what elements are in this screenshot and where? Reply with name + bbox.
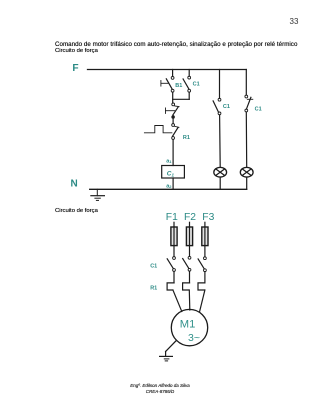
fuse F1 — [171, 222, 177, 256]
footer signature — [0, 383, 320, 395]
svg-text:3~: 3~ — [188, 332, 200, 344]
ground (N rail) — [91, 189, 105, 200]
seal contact C1 — [183, 70, 191, 93]
pushbutton B1 — [161, 70, 174, 93]
wire coil to N — [172, 178, 174, 189]
label M1 — [180, 318, 196, 330]
title line 2 — [55, 48, 98, 54]
label C1 (seal) — [193, 81, 200, 87]
wire F rail — [88, 69, 247, 71]
wire lamp H1 to N — [219, 177, 221, 189]
svg-text:C1: C1 — [167, 171, 175, 178]
label C1 lamp2 — [255, 107, 262, 113]
label 3~ — [188, 332, 200, 344]
contact C1 phase2 — [183, 256, 191, 271]
wire to lamp H2 — [245, 112, 247, 167]
svg-text:B1: B1 — [175, 83, 182, 89]
labels F1 F2 F3 — [166, 212, 215, 223]
svg-text:C1: C1 — [255, 107, 262, 113]
svg-text:R1: R1 — [150, 285, 157, 291]
label C1 coil — [167, 171, 175, 178]
svg-text:F2: F2 — [184, 212, 196, 223]
svg-text:M1: M1 — [180, 318, 196, 330]
fuse F3 — [202, 222, 208, 256]
title line 1 — [55, 41, 297, 48]
label C1 (forca) — [150, 264, 157, 270]
motor M1 — [171, 309, 207, 345]
ground (motor) — [160, 340, 177, 361]
label R1 (forca) — [150, 285, 157, 291]
svg-text:C1: C1 — [150, 264, 157, 270]
node N label — [71, 179, 78, 190]
NC pushbutton S0 — [166, 103, 180, 115]
thermal element R1 phase1 — [167, 271, 182, 311]
lamp H2 — [240, 167, 253, 177]
label R1 — [183, 135, 190, 141]
thermal element R1 phase2 — [183, 271, 190, 310]
label C1 lamp1 — [223, 104, 230, 110]
coil C1 — [162, 166, 185, 179]
node F label — [72, 63, 78, 74]
wire N rail — [90, 188, 247, 190]
svg-text:a1: a1 — [166, 158, 172, 164]
svg-text:F: F — [72, 63, 78, 74]
svg-text:N: N — [71, 179, 78, 190]
contact C1 phase3 — [198, 257, 206, 272]
wire lamp H2 to N — [246, 177, 248, 189]
lamp H1 — [214, 167, 227, 177]
label a2 — [166, 183, 172, 189]
contact C1 lamp1 — [213, 70, 221, 115]
svg-text:C1: C1 — [193, 81, 200, 87]
svg-text:F1: F1 — [166, 212, 178, 223]
junction dot — [171, 115, 175, 119]
wire S0 to R1 — [172, 116, 174, 124]
contact C1 lamp2 (NC) — [245, 70, 253, 112]
contact C1 phase1 — [167, 257, 175, 272]
fuse F2 — [186, 222, 192, 256]
label a1 — [166, 158, 172, 164]
svg-text:a2: a2 — [166, 183, 172, 189]
page number — [290, 17, 299, 26]
svg-text:R1: R1 — [183, 135, 190, 141]
thermal contact R1 — [144, 124, 179, 140]
section label: Circuito de forca — [55, 208, 98, 214]
svg-text:C1: C1 — [223, 104, 230, 110]
wire R1 to coil — [172, 140, 174, 166]
wire to lamp H1 — [219, 115, 222, 167]
label B1 — [175, 83, 182, 89]
wire parallel join — [173, 92, 190, 103]
thermal element R1 phase3 — [198, 272, 205, 312]
svg-text:F3: F3 — [202, 212, 214, 223]
